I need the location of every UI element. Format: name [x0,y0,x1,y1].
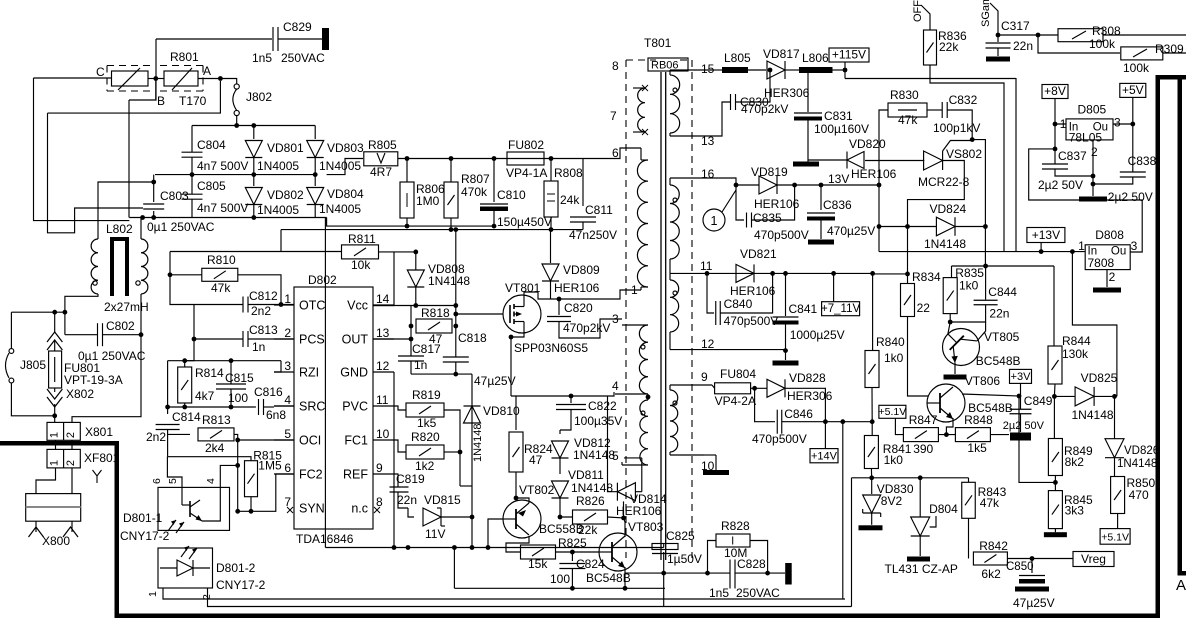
wire r843 bottom [968,518,970,558]
junction R808 top [549,156,554,161]
junction c836 top [819,183,824,188]
border thick right [1156,75,1161,618]
svg-text:C802: C802 [106,319,135,333]
junction vd825 right [1112,394,1117,399]
junction X801 pin1 feed [52,413,57,418]
svg-text:47: 47 [529,453,543,467]
border thick left step [0,441,119,446]
connector X801 [47,422,80,440]
svg-text:47k: 47k [211,281,231,295]
node A [218,76,223,81]
winding T801 primary 6-1 [637,160,648,287]
svg-text:R805: R805 [368,138,397,152]
junction R818 rail [453,303,458,308]
svg-text:C844: C844 [988,285,1017,299]
wire c836 down [820,221,822,240]
wire riser 985 [972,140,985,266]
wire VD810 top [460,485,472,487]
wire R824 bottom [515,472,517,498]
wire +5.1V lead [895,418,903,434]
wire r309 left [1038,35,1120,53]
svg-text:SPP03N60S5: SPP03N60S5 [514,341,588,355]
svg-text:Vcc: Vcc [347,299,368,313]
junction vd824 left [905,224,910,229]
svg-text:470: 470 [1129,488,1149,502]
net +5.1V right [1100,529,1130,545]
wire d805 gnd [1092,140,1094,196]
svg-text:VD826: VD826 [1124,445,1159,457]
svg-text:TL431 CZ-AP: TL431 CZ-AP [885,562,958,576]
wire row 266 [952,265,1055,267]
junction C815 bottom [229,405,234,410]
svg-text:HER306: HER306 [764,86,810,100]
svg-text:MCR22-8: MCR22-8 [918,175,970,189]
svg-text:C825: C825 [666,529,695,543]
svg-text:T170: T170 [179,94,207,108]
net +7_11V [822,302,860,316]
wire c317 down [997,48,999,56]
svg-text:470k: 470k [461,185,488,199]
wire pin11 rail [712,272,873,274]
wire C831 bottom [807,121,809,162]
svg-text:HER106: HER106 [754,197,800,211]
wire vd826 top [1114,396,1116,438]
wire vd824 col down [907,227,909,274]
svg-text:R309: R309 [1155,42,1184,56]
wire c849 down [1020,414,1022,432]
svg-text:1µ50V: 1µ50V [667,552,702,566]
junction r849 r845 [1053,480,1058,485]
junction c850 top [1030,556,1035,561]
junction c844 top [983,264,988,269]
ground VD830 [859,525,883,530]
regulator D805 78L05 [1066,119,1113,140]
svg-text:250VAC: 250VAC [736,586,780,600]
svg-text:PCS: PCS [299,333,325,347]
wire primary rail +310V [398,158,507,160]
inductor L802 common mode choke [110,237,114,296]
svg-text:4n7 500V: 4n7 500V [197,159,248,173]
net +115V [829,48,869,62]
svg-text:2: 2 [65,460,77,466]
wire L802 right bottom [140,294,142,335]
wire c835 right [752,185,795,220]
svg-text:15: 15 [701,62,715,76]
svg-text:CNY17-2: CNY17-2 [216,578,266,592]
junction R818 right [453,324,458,329]
svg-text:R842: R842 [979,539,1008,553]
border second right [1178,75,1183,575]
svg-text:C840: C840 [724,297,753,311]
junction VT803 collector [621,516,626,521]
junction VT801 source [509,335,514,340]
wire +3V down [1020,383,1022,409]
svg-text:3k3: 3k3 [1065,504,1085,518]
capacitor C805 [191,175,193,194]
wire VD809 riser [550,230,552,261]
svg-text:PVC: PVC [342,400,368,414]
svg-text:5: 5 [612,449,619,463]
svg-text:OCI: OCI [299,434,321,448]
wire PVC pin11 net [394,406,406,410]
wire snubber riser [471,374,473,517]
wire gnd stub [785,351,787,360]
svg-text:2µ2 50V: 2µ2 50V [1038,178,1083,192]
svg-text:SYN: SYN [299,502,325,516]
svg-text:OFF: OFF [912,0,924,22]
svg-text:47k: 47k [898,113,918,127]
svg-text:1: 1 [1078,239,1085,253]
junction +3V node [1017,394,1022,399]
wire FC2 bus [238,474,294,511]
wire vt806 emitter [946,418,953,435]
svg-text:14: 14 [376,292,390,306]
junction VD801 top [251,123,256,128]
junction VD811 R826 [558,515,563,520]
junction VD801 bottom [251,172,256,177]
wire XF801 pin1 down [36,468,56,494]
junction vd825 left [1052,394,1057,399]
svg-text:12: 12 [376,359,390,373]
svg-text:11: 11 [376,393,389,407]
capacitor C822 [570,396,572,403]
wire r845 bottom [1054,529,1056,533]
wire +115V lead [844,62,846,79]
svg-text:47µ25V: 47µ25V [474,374,516,388]
svg-text:C832: C832 [949,93,978,107]
winding T801 sec 16-11 [670,185,679,259]
transformer T801 core [660,72,662,560]
svg-text:47k: 47k [980,496,1000,510]
wire C829 feed [156,38,272,40]
wire GND pin12 down [393,372,395,548]
svg-text:4k7: 4k7 [195,389,215,403]
svg-text:16: 16 [701,167,715,181]
optocoupler D801-2 [158,548,213,588]
wire r830 left [879,110,888,252]
wire OCI pin5 [238,439,294,441]
resistor R847 [903,428,938,442]
border thick bottom [115,614,1160,619]
net SGame wire [990,3,998,33]
svg-text:VT803: VT803 [628,520,664,534]
svg-text:10: 10 [376,427,390,441]
svg-text:2x27mH: 2x27mH [104,300,149,314]
wire VT803 base [572,551,599,553]
junction C822 top [569,394,574,399]
ground R845 [1044,532,1067,537]
capacitor C810 (150u450V) [493,159,495,203]
wire r308 right [1103,34,1186,36]
svg-text:1000µ25V: 1000µ25V [790,328,845,342]
junction +7_11V [831,271,836,276]
svg-text:C838: C838 [1128,154,1157,168]
svg-text:BC548B: BC548B [976,354,1021,368]
wire C828 node right [735,572,785,574]
svg-text:6k2: 6k2 [981,567,1001,581]
node R801 mid [153,76,158,81]
transformer T801 outline [625,60,627,558]
svg-text:100k: 100k [1123,61,1150,75]
svg-text:2: 2 [284,326,291,340]
svg-text:1N4005: 1N4005 [319,202,361,216]
svg-text:Vreg: Vreg [1081,552,1106,566]
jumper J802 [234,84,239,89]
net Vreg [1073,552,1114,567]
svg-text:1: 1 [49,460,61,466]
svg-text:1M5: 1M5 [258,459,282,473]
svg-text:470p500V: 470p500V [724,314,779,328]
svg-text:HER106: HER106 [616,504,662,518]
wire +13V lead [1040,243,1042,252]
capacitor C820 [558,299,560,315]
wire r309 right [1163,52,1186,54]
svg-text:R811: R811 [348,232,376,246]
wire riser to VT802 bus [471,517,473,548]
svg-text:1n5: 1n5 [252,51,272,65]
svg-text:2: 2 [65,432,77,438]
wire A to J802 [220,79,236,85]
capacitor C825 [652,544,678,550]
svg-text:D808: D808 [1095,228,1124,242]
junction out rail [409,337,414,342]
wire d804 bottom [919,536,921,556]
wire VT801 drain [524,292,559,299]
svg-text:J802: J802 [246,90,272,104]
wire d804 top [919,478,921,517]
wire r843 top [968,478,970,483]
antenna mark Y [93,470,102,476]
svg-text:R813: R813 [202,413,231,427]
transistor VT805 (BC548B) [935,321,987,373]
svg-text:VD828: VD828 [789,371,826,385]
wire pin5 stub [624,457,642,459]
wire VD811 bottom [560,498,573,517]
junction pin4 tap [646,395,651,400]
wire c814 rail down [167,434,169,456]
diode VD808 [407,270,424,287]
op-amp U1 controller IC D802 TDA16846 box [294,287,373,529]
wire r814 node left [168,360,185,362]
wire y78 feed [845,78,1016,80]
svg-text:6: 6 [151,478,163,484]
wire regulation bus [852,477,969,479]
junction c835 vd819 [792,183,797,188]
winding T801 pins 3-4 [639,325,648,394]
diode VD812 [559,430,561,434]
svg-text:VD825: VD825 [1081,371,1118,385]
svg-text:VT805: VT805 [984,330,1020,344]
svg-text:22: 22 [917,301,931,315]
wire C828 node left [625,572,730,574]
wire c844 stem [985,266,987,300]
fuse FU801 with arrows [54,312,56,332]
wire rail to R808 and transformer [544,148,641,159]
svg-text:C820: C820 [564,301,593,315]
wire C824 bottom [571,569,573,589]
inductor L805 [722,67,748,73]
svg-text:2µ2 50V: 2µ2 50V [1108,190,1153,204]
svg-text:1: 1 [49,432,61,438]
wire riser to R810 row [280,230,282,252]
svg-text:250VAC: 250VAC [281,51,325,65]
svg-text:+7_11V: +7_11V [821,303,860,315]
transistor VT802 (BC558B) [503,500,541,538]
wire VT802 top bus [511,395,571,397]
connector X802 arrows [54,388,56,392]
junction R825 C824 [570,550,575,555]
wire R820 right [444,451,460,453]
svg-text:1k0: 1k0 [884,351,904,365]
winding T801 pins 4-5 [640,400,648,465]
wire +3V sense [1019,396,1055,482]
wire r835 top [951,266,953,278]
wire Vcc rail [374,305,456,307]
wire X801 to XF801 pin2 [71,440,73,449]
svg-text:R840: R840 [876,335,905,349]
wire C814 bottom [168,430,190,435]
svg-text:VT802: VT802 [519,483,555,497]
wire mains phase B [34,77,112,79]
svg-text:VT806: VT806 [965,374,1001,388]
wire to r308 [1038,34,1058,36]
wire r834 stub [907,274,909,284]
diode VD804 [314,175,316,186]
svg-text:HER106: HER106 [851,167,897,181]
junction VD815 right [470,515,475,520]
svg-text:X802: X802 [66,387,94,401]
capacitor C811 [582,159,584,207]
svg-text:D802: D802 [308,273,337,287]
wire R815 top [167,457,251,461]
wire vt805 base [948,322,950,334]
svg-text:VP4-2A: VP4-2A [715,394,756,408]
svg-text:L805: L805 [724,51,751,65]
svg-text:SGame: SGame [980,0,992,27]
net +14V [810,449,838,463]
svg-text:VD819: VD819 [751,165,788,179]
junction R810 left [168,272,173,277]
wire C819 bottom [398,492,408,508]
wire c835 left [736,185,744,220]
junction r841 bottom [869,475,874,480]
resistor R808 [550,159,552,182]
wire phase A horiz [48,81,221,113]
wire r840 wire [872,273,874,351]
junction x472 [470,545,475,550]
wire r847 right [939,434,956,436]
diode VD811 [559,458,561,474]
junction +14V node [823,419,828,424]
resistor R828 [716,534,750,547]
junction +13V box [1039,249,1044,254]
svg-text:VPT-19-3A: VPT-19-3A [64,373,123,387]
junction gate rail [453,312,458,317]
svg-text:J805: J805 [20,358,46,372]
svg-text:C811: C811 [585,203,613,217]
wire vd830 bottom [871,513,873,525]
wire node1 diag [722,190,736,212]
wire VD820 left [808,159,847,161]
svg-text:A: A [203,64,211,78]
junction C810 bottom [492,224,497,229]
junction C804 bottom [190,172,195,177]
resistor R801 (thermistor pair T170) [107,65,150,67]
wire VD815 right [441,516,472,518]
svg-text:R819: R819 [412,388,441,402]
wire C822 bottom [560,420,571,430]
junction rail col879 [877,183,882,188]
svg-text:C835: C835 [753,211,782,225]
junction r835 c844 [948,320,953,325]
wire bridge mid bus [155,174,315,176]
svg-text:470µ25V: 470µ25V [827,224,875,238]
capacitor C818 [443,356,469,358]
junction c832 riser [970,137,975,142]
junction R808 bottom [549,227,554,232]
svg-text:C846: C846 [784,407,813,421]
svg-text:10k: 10k [351,258,371,272]
wire hot ground rail [324,218,326,548]
svg-text:47µ25V: 47µ25V [1013,596,1055,610]
wire opto2 pin1 [163,588,845,599]
terminal bar after C829 [322,28,329,50]
junction R806 bottom [405,224,410,229]
junction R813 rail bottom [235,509,240,514]
svg-text:VP4-1A: VP4-1A [506,166,547,180]
resistor R836 [924,30,937,65]
junction R807 top [449,156,454,161]
wire FC1 node down [459,440,461,486]
junction c841 top [783,271,788,276]
svg-text:1N4148: 1N4148 [428,274,470,288]
junction gnd c837 [1091,174,1096,179]
wire RZI [274,361,281,372]
wire VD814 right [635,491,641,493]
svg-text:22n: 22n [397,493,417,507]
svg-text:VD802: VD802 [267,188,304,202]
svg-text:R801: R801 [170,50,199,64]
svg-text:7: 7 [610,109,617,123]
svg-text:1k5: 1k5 [417,416,437,430]
junction vd824 right [983,224,988,229]
wire feedback riser right [842,422,844,599]
wire C825 stem down [663,552,665,607]
svg-text:R848: R848 [964,413,993,427]
wire pin12 [712,349,786,351]
svg-text:SRC: SRC [299,400,325,414]
wire pcs net down [185,305,194,361]
wire bottom feedback bus [168,406,254,408]
wire r841 top [871,422,873,436]
diode VD821 (HER106) [736,264,754,282]
svg-text:C805: C805 [197,179,226,193]
wire vd825 in [1054,395,1074,397]
svg-text:100µ160V: 100µ160V [814,122,869,136]
svg-text:1N4005: 1N4005 [319,159,361,173]
junction C812 right [279,302,284,307]
winding T801 sec 15-13 [670,75,680,133]
resistor R826 [573,510,608,524]
svg-text:OTC: OTC [299,299,325,313]
wire R811 right [379,251,416,253]
svg-text:11V: 11V [425,527,445,541]
svg-text:VD821: VD821 [740,247,777,261]
svg-text:6n8: 6n8 [266,408,286,422]
junction pin12 gnd [783,348,788,353]
wire bridge bottom bus [129,217,326,219]
junction r840 top [870,271,875,276]
